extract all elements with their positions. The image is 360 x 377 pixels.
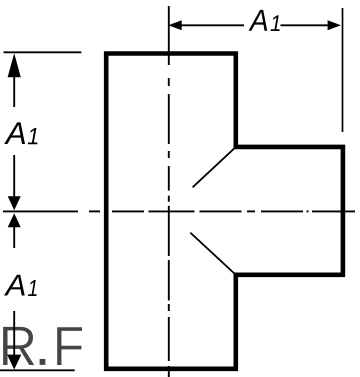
horizontal centerline [3, 210, 355, 212]
top extension line right [342, 8, 344, 132]
upper left dimension label A1 [4, 122, 37, 144]
upper left dimension line [13, 76, 15, 197]
lower left dimension up arrowhead [8, 213, 21, 227]
top dimension right arrowhead [328, 20, 341, 30]
lower left dimension down arrowhead [7, 355, 21, 370]
upper left dimension down arrowhead [8, 196, 21, 210]
upper left dimension up arrowhead [8, 53, 21, 77]
top dimension label A1 [249, 10, 280, 31]
top dimension left arrowhead [168, 20, 181, 30]
tee fitting body outline [106, 54, 343, 369]
top dimension line [180, 24, 330, 26]
lower left dimension line [13, 226, 15, 355]
bottom left extension line [0, 369, 75, 371]
lower crotch transition line [190, 233, 234, 274]
left top extension line [4, 51, 82, 53]
lower left dimension label A1 [4, 275, 37, 296]
upper crotch transition line [193, 148, 235, 187]
vertical centerline [168, 6, 170, 377]
label R.F [3, 327, 83, 366]
